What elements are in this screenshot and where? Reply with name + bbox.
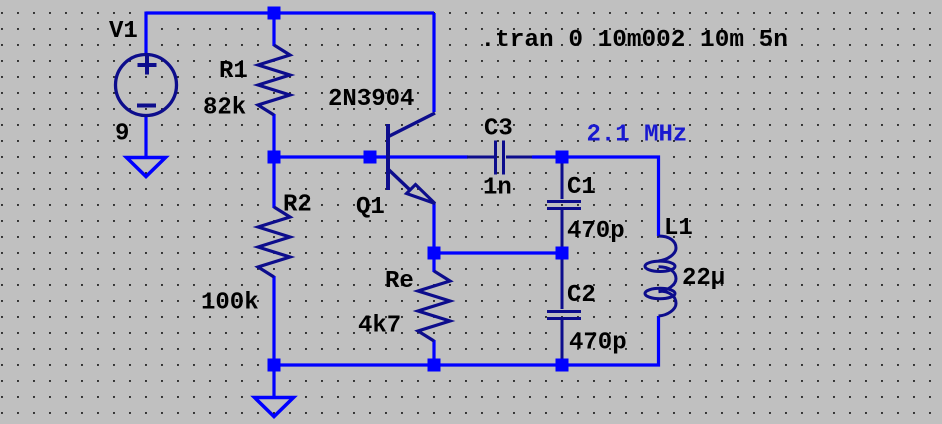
capacitor C1 plates — [547, 202, 581, 209]
wire bottom rail — [274, 316, 659, 365]
capacitor C1 bottom lead — [561, 210, 564, 247]
svg-text:R1: R1 — [219, 58, 248, 85]
junction node emitter-Re — [428, 247, 441, 260]
wire base rail — [274, 155, 468, 158]
wire V1 top lead — [144, 12, 147, 55]
voltage source V1 circle — [116, 55, 177, 116]
transistor Q1 emitter diagonal — [389, 170, 411, 191]
wire R1 bottom lead — [272, 114, 275, 157]
wire Re top lead — [432, 253, 435, 272]
svg-text:C1: C1 — [567, 174, 596, 201]
svg-text:2.1 MHz: 2.1 MHz — [587, 122, 688, 149]
svg-text:470p: 470p — [569, 330, 627, 357]
capacitor C3 plates — [496, 141, 504, 175]
junction node base pin — [364, 151, 377, 164]
junction node bottom C2 — [556, 359, 569, 372]
capacitor C2 top lead — [561, 259, 564, 309]
V1 plus sign — [138, 56, 157, 75]
transistor Q1 emitter arrow — [407, 185, 436, 204]
capacitor C3 right lead — [506, 156, 532, 159]
capacitor C1 top lead — [561, 163, 564, 199]
junction node top rail R1 — [268, 7, 281, 20]
transistor Q1 collector diagonal — [389, 113, 436, 137]
wire R1 top lead — [272, 13, 275, 46]
wire R2 top lead — [272, 157, 275, 208]
wire emitter node to C1 node — [434, 251, 562, 254]
svg-text:R2: R2 — [283, 192, 312, 219]
svg-text:2N3904: 2N3904 — [328, 86, 414, 113]
svg-text:1n: 1n — [483, 175, 512, 202]
junction node C3-C1-L1 — [556, 151, 569, 164]
svg-text:9: 9 — [115, 121, 129, 148]
transistor Q1 base bar — [386, 124, 390, 190]
wire V1 bottom lead — [144, 116, 147, 156]
svg-text:Q1: Q1 — [356, 194, 385, 221]
wire node to L1 top — [562, 157, 659, 236]
inductor L1 — [645, 236, 676, 316]
ground main — [255, 398, 294, 417]
resistor R1 — [258, 45, 290, 115]
svg-text:100k: 100k — [201, 290, 259, 317]
resistor Re — [418, 271, 450, 341]
capacitor C2 plates — [547, 312, 581, 319]
svg-text:.tran 0 10m002 10m 5n: .tran 0 10m002 10m 5n — [481, 27, 788, 54]
wire R2 bottom lead — [272, 276, 275, 365]
resistor R2 — [258, 207, 290, 277]
svg-text:C3: C3 — [484, 116, 513, 143]
capacitor C3 left lead — [467, 156, 494, 159]
svg-text:L1: L1 — [664, 215, 693, 242]
wire emitter down — [432, 203, 435, 253]
junction node base divider — [268, 151, 281, 164]
svg-text:82k: 82k — [203, 95, 246, 122]
wire collector — [432, 13, 435, 112]
svg-text:V1: V1 — [109, 18, 138, 45]
V1 minus sign — [137, 104, 156, 108]
junction node bottom Re — [428, 359, 441, 372]
ground V1 — [127, 158, 166, 177]
wire ground stub — [272, 365, 275, 397]
capacitor C2 bottom lead — [561, 320, 564, 359]
svg-text:22µ: 22µ — [682, 265, 725, 292]
svg-text:C2: C2 — [567, 282, 596, 309]
wire Re bottom lead — [432, 340, 435, 365]
svg-text:470p: 470p — [567, 218, 625, 245]
junction node C1-C2 — [556, 247, 569, 260]
wire C3 right to node — [532, 155, 562, 158]
junction node bottom R2 — [268, 359, 281, 372]
wire top rail V1 to collector — [146, 11, 434, 14]
svg-text:Re: Re — [385, 268, 414, 295]
svg-text:4k7: 4k7 — [358, 313, 401, 340]
